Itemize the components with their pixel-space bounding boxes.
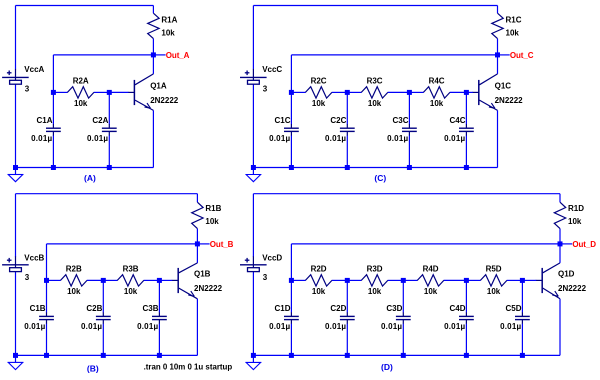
svg-text:(B): (B) <box>87 364 99 374</box>
wire <box>46 280 48 312</box>
svg-text:R2C: R2C <box>311 77 327 86</box>
wire <box>144 279 160 281</box>
svg-text:3: 3 <box>263 85 268 94</box>
wire R1C top lead <box>497 6 499 14</box>
wire <box>108 135 110 167</box>
svg-text:3: 3 <box>263 273 268 282</box>
svg-text:C4C: C4C <box>449 116 465 125</box>
wire feedback vertical D <box>290 244 292 281</box>
resistor R2D 10k <box>305 265 332 297</box>
node junction VccA bottom <box>13 165 18 170</box>
svg-text:Q1C: Q1C <box>495 81 512 90</box>
svg-text:10k: 10k <box>368 287 382 296</box>
svg-text:0.01µ: 0.01µ <box>269 134 290 143</box>
svg-text:10k: 10k <box>205 217 219 226</box>
wire <box>408 135 410 167</box>
svg-text:2N2222: 2N2222 <box>495 96 524 105</box>
svg-text:VccD: VccD <box>262 253 282 262</box>
wire R1B to Out_B <box>196 229 198 244</box>
capacitor C1D 0.01u <box>269 304 299 331</box>
wire Out_C to Q1C collector <box>497 55 499 74</box>
svg-text:10k: 10k <box>430 99 444 108</box>
resistor R5D 10k <box>480 265 507 297</box>
wire Out_D stub <box>560 243 572 245</box>
wire VccB to R1B <box>16 193 198 195</box>
svg-text:R4D: R4D <box>423 265 439 274</box>
wire <box>388 91 410 93</box>
svg-text:0.01µ: 0.01µ <box>24 322 45 331</box>
capacitor C2C 0.01u <box>325 116 355 143</box>
wire VccD top lead <box>252 194 254 257</box>
resistor R2C 10k <box>305 77 332 109</box>
wire VccD to R1D <box>253 193 560 195</box>
capacitor C3B 0.01u <box>137 304 167 331</box>
wire <box>465 280 467 312</box>
wire feedback horizontal B <box>47 243 198 245</box>
svg-text:R4C: R4C <box>429 77 445 86</box>
node junction C1A top <box>51 90 56 95</box>
svg-text:C2A: C2A <box>92 116 108 125</box>
wire feedback vertical B <box>46 244 48 281</box>
capacitor C2D 0.01u <box>325 304 355 331</box>
wire <box>47 279 61 281</box>
svg-text:C5D: C5D <box>505 304 521 313</box>
transistor Q1C 2N2222 <box>472 74 523 111</box>
wire <box>52 92 54 124</box>
node junction C4C bottom <box>464 165 469 170</box>
svg-text:C2C: C2C <box>330 116 346 125</box>
node junction C3B bottom <box>157 353 162 358</box>
wire Q1A emitter to ground rail <box>152 110 154 167</box>
node junction C1A bottom <box>51 165 56 170</box>
node junction C2A top <box>107 90 112 95</box>
wire R1A to Out_A <box>152 39 154 55</box>
svg-text:Out_B: Out_B <box>210 240 234 249</box>
node junction C2D bottom <box>345 353 350 358</box>
svg-text:10k: 10k <box>312 287 326 296</box>
wire <box>465 135 467 167</box>
resistor R2A 10k <box>67 77 94 109</box>
svg-text:R3D: R3D <box>367 265 383 274</box>
wire <box>402 280 404 312</box>
node junction C4D bottom <box>464 353 469 358</box>
svg-text:R2A: R2A <box>73 77 89 86</box>
svg-text:0.01µ: 0.01µ <box>500 322 521 331</box>
svg-text:R1C: R1C <box>506 15 522 24</box>
transistor Q1D 2N2222 <box>536 263 587 299</box>
transistor Q1A 2N2222 <box>128 74 179 111</box>
svg-text:C1D: C1D <box>274 304 290 313</box>
wire Out_A to Q1A collector <box>152 55 154 74</box>
svg-text:Q1B: Q1B <box>194 270 211 279</box>
wire R1D top lead <box>559 194 561 203</box>
node junction C1B top <box>44 278 49 283</box>
svg-text:10k: 10k <box>67 287 81 296</box>
svg-text:R2D: R2D <box>311 265 327 274</box>
wire ground rail D <box>253 354 560 356</box>
wire <box>102 324 104 356</box>
svg-text:(C): (C) <box>374 173 386 183</box>
svg-text:R3B: R3B <box>123 265 139 274</box>
wire R1A top lead <box>152 6 154 14</box>
svg-text:10k: 10k <box>506 29 520 38</box>
wire base Q1A <box>109 91 128 93</box>
wire <box>466 279 480 281</box>
node junction C2A bottom <box>107 165 112 170</box>
node junction C3C top <box>407 90 412 95</box>
node junction C3B top <box>157 278 162 283</box>
wire VccA bottom lead <box>15 84 17 167</box>
wire base Q1B <box>159 279 172 281</box>
svg-text:0.01µ: 0.01µ <box>444 322 465 331</box>
voltage source VccC 3V <box>240 65 282 94</box>
wire <box>465 92 467 124</box>
svg-text:R5D: R5D <box>486 265 502 274</box>
wire <box>53 91 67 93</box>
svg-text:Q1A: Q1A <box>150 81 167 90</box>
wire <box>346 280 348 312</box>
wire feedback horizontal C <box>291 54 497 56</box>
wire base Q1C <box>466 91 472 93</box>
wire feedback horizontal A <box>53 54 153 56</box>
wire <box>290 324 292 356</box>
wire <box>290 280 292 312</box>
resistor R1D 10k <box>554 202 584 228</box>
resistor R3B 10k <box>117 265 144 297</box>
resistor R2B 10k <box>61 265 88 297</box>
capacitor C2A 0.01u <box>87 116 117 143</box>
wire <box>158 324 160 356</box>
node junction C4C top <box>464 90 469 95</box>
wire <box>346 324 348 356</box>
node Out_D junction <box>558 241 563 246</box>
node Out_B junction <box>195 241 200 246</box>
capacitor C1A 0.01u <box>31 116 61 143</box>
svg-text:Out_C: Out_C <box>510 51 534 60</box>
svg-text:0.01µ: 0.01µ <box>444 134 465 143</box>
wire base Q1D <box>522 279 536 281</box>
svg-text:C3D: C3D <box>386 304 402 313</box>
wire <box>402 324 404 356</box>
wire <box>388 279 404 281</box>
svg-text:Out_D: Out_D <box>572 240 596 249</box>
svg-text:Q1D: Q1D <box>558 270 575 279</box>
node Out_C junction <box>495 52 500 57</box>
wire VccB bottom lead <box>15 272 17 356</box>
node junction C1C bottom <box>289 165 294 170</box>
svg-text:10k: 10k <box>312 99 326 108</box>
node junction C2D top <box>345 278 350 283</box>
wire feedback vertical C <box>290 55 292 93</box>
capacitor C3C 0.01u <box>387 116 417 143</box>
capacitor C2B 0.01u <box>81 304 111 331</box>
svg-text:C1A: C1A <box>36 116 52 125</box>
svg-text:C3B: C3B <box>142 304 158 313</box>
svg-text:(A): (A) <box>84 173 96 183</box>
wire Out_D to Q1D collector <box>559 244 561 263</box>
node junction C1D top <box>289 278 294 283</box>
wire feedback vertical A <box>52 55 54 93</box>
resistor R3D 10k <box>361 265 388 297</box>
svg-text:3: 3 <box>25 273 30 282</box>
node junction C5D top <box>520 278 525 283</box>
wire <box>290 92 292 124</box>
svg-text:0.01µ: 0.01µ <box>381 322 402 331</box>
svg-text:10k: 10k <box>424 287 438 296</box>
capacitor C1B 0.01u <box>24 304 54 331</box>
wire <box>158 280 160 312</box>
wire VccC top lead <box>252 6 254 70</box>
wire <box>346 135 348 167</box>
wire <box>347 279 361 281</box>
node junction C2B top <box>101 278 106 283</box>
svg-text:R1B: R1B <box>205 204 221 213</box>
wire <box>403 279 417 281</box>
svg-text:10k: 10k <box>568 217 582 226</box>
svg-text:10k: 10k <box>368 99 382 108</box>
svg-text:C1B: C1B <box>30 304 46 313</box>
wire Out_B stub <box>197 243 209 245</box>
wire <box>332 279 348 281</box>
wire Q1C emitter to ground rail <box>497 110 499 167</box>
svg-text:2N2222: 2N2222 <box>558 284 587 293</box>
svg-text:VccB: VccB <box>24 253 44 262</box>
node junction C5D bottom <box>520 353 525 358</box>
svg-text:R3C: R3C <box>367 77 383 86</box>
ground C <box>245 168 261 182</box>
wire Out_C stub <box>498 54 510 56</box>
wire VccA top lead <box>15 6 17 70</box>
wire ground rail C <box>253 167 497 169</box>
wire <box>46 324 48 356</box>
node junction VccC bottom <box>251 165 256 170</box>
capacitor C3D 0.01u <box>381 304 411 331</box>
transistor Q1B 2N2222 <box>172 263 223 299</box>
wire <box>94 91 110 93</box>
svg-text:10k: 10k <box>487 287 501 296</box>
wire VccD bottom lead <box>252 272 254 356</box>
wire <box>346 92 348 124</box>
svg-text:C2B: C2B <box>86 304 102 313</box>
wire Out_B to Q1B collector <box>196 244 198 263</box>
node junction C4D top <box>464 278 469 283</box>
wire ground rail A <box>16 167 154 169</box>
wire <box>408 92 410 124</box>
wire feedback horizontal D <box>291 243 560 245</box>
capacitor C4D 0.01u <box>444 304 474 331</box>
resistor R3C 10k <box>361 77 388 109</box>
svg-text:2N2222: 2N2222 <box>150 96 179 105</box>
wire <box>409 91 423 93</box>
wire <box>103 279 117 281</box>
svg-text:2N2222: 2N2222 <box>194 284 223 293</box>
wire <box>507 279 523 281</box>
svg-text:R1A: R1A <box>161 15 177 24</box>
wire <box>444 279 467 281</box>
svg-text:0.01µ: 0.01µ <box>87 134 108 143</box>
node junction VccD bottom <box>251 353 256 358</box>
resistor R1C 10k <box>492 13 522 38</box>
wire <box>521 324 523 356</box>
wire R1C to Out_C <box>497 39 499 55</box>
ground D <box>245 355 261 369</box>
wire R1B top lead <box>196 194 198 203</box>
svg-text:0.01µ: 0.01µ <box>81 322 102 331</box>
node junction C3D top <box>401 278 406 283</box>
svg-text:0.01µ: 0.01µ <box>387 134 408 143</box>
node junction C1B bottom <box>44 353 49 358</box>
svg-text:10k: 10k <box>161 29 175 38</box>
wire Out_A stub <box>153 54 165 56</box>
ground A <box>8 168 24 182</box>
svg-text:Out_A: Out_A <box>166 51 190 60</box>
resistor R1A 10k <box>148 13 178 38</box>
node junction C2B bottom <box>101 353 106 358</box>
svg-text:3: 3 <box>25 85 30 94</box>
svg-text:0.01µ: 0.01µ <box>137 322 158 331</box>
svg-text:10k: 10k <box>124 287 138 296</box>
resistor R4D 10k <box>417 265 444 297</box>
wire ground rail B <box>16 354 198 356</box>
wire VccA to R1A <box>16 5 154 7</box>
node junction VccB bottom <box>13 353 18 358</box>
svg-text:VccC: VccC <box>262 65 282 74</box>
svg-text:C3C: C3C <box>392 116 408 125</box>
node junction C1C top <box>289 90 294 95</box>
resistor R1B 10k <box>192 202 222 228</box>
node junction C3D bottom <box>401 353 406 358</box>
svg-text:.tran 0 10m 0 1u startup: .tran 0 10m 0 1u startup <box>144 362 233 371</box>
node junction C2C top <box>345 90 350 95</box>
svg-text:C1C: C1C <box>274 116 290 125</box>
wire Q1B emitter to ground rail <box>196 299 198 356</box>
svg-text:0.01µ: 0.01µ <box>325 322 346 331</box>
wire VccB top lead <box>15 194 17 257</box>
svg-text:0.01µ: 0.01µ <box>31 134 52 143</box>
node junction C2C bottom <box>345 165 350 170</box>
wire Q1D emitter to ground rail <box>559 299 561 356</box>
wire R1D to Out_D <box>559 229 561 244</box>
wire <box>465 324 467 356</box>
node Out_A junction <box>151 52 156 57</box>
resistor R4C 10k <box>423 77 450 109</box>
wire <box>291 91 305 93</box>
voltage source VccB 3V <box>2 253 44 282</box>
capacitor C5D 0.01u <box>500 304 530 331</box>
svg-text:R2B: R2B <box>66 265 82 274</box>
voltage source VccA 3V <box>2 65 44 94</box>
svg-text:VccA: VccA <box>24 65 44 74</box>
wire <box>332 91 348 93</box>
wire VccC to R1C <box>253 5 497 7</box>
wire <box>290 135 292 167</box>
capacitor C4C 0.01u <box>444 116 474 143</box>
wire <box>108 92 110 124</box>
node junction C3C bottom <box>407 165 412 170</box>
voltage source VccD 3V <box>240 253 282 282</box>
capacitor C1C 0.01u <box>269 116 299 143</box>
svg-text:(D): (D) <box>381 362 393 372</box>
svg-text:0.01µ: 0.01µ <box>325 134 346 143</box>
wire <box>87 279 104 281</box>
wire VccC bottom lead <box>252 84 254 167</box>
wire <box>102 280 104 312</box>
svg-text:0.01µ: 0.01µ <box>269 322 290 331</box>
svg-text:C2D: C2D <box>330 304 346 313</box>
svg-text:10k: 10k <box>74 99 88 108</box>
wire <box>521 280 523 312</box>
svg-text:R1D: R1D <box>568 204 584 213</box>
ground B <box>8 355 24 369</box>
wire <box>347 91 361 93</box>
node junction C1D bottom <box>289 353 294 358</box>
wire <box>291 279 305 281</box>
wire <box>52 135 54 167</box>
wire <box>450 91 467 93</box>
svg-text:C4D: C4D <box>449 304 465 313</box>
